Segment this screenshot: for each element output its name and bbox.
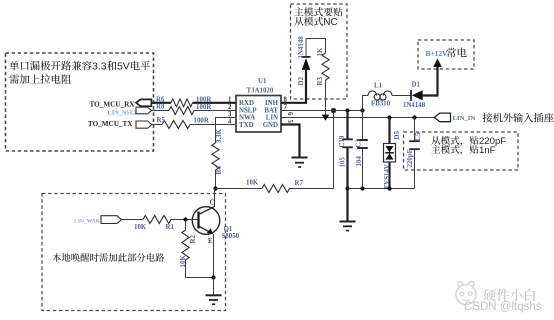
wire D2 top to R3 top <box>306 39 326 54</box>
port LIN_IN <box>435 113 476 122</box>
svg-text:R1: R1 <box>166 224 175 231</box>
wire R1 to base <box>171 219 199 221</box>
wire R3 down to LIN <box>325 80 327 118</box>
svg-text:TVS14V: TVS14V <box>384 164 391 189</box>
svg-text:本地唤醒时需加此部分电路: 本地唤醒时需加此部分电路 <box>52 250 165 264</box>
resistor R4 3.3K <box>212 128 223 174</box>
capacitor C3 104 <box>356 111 368 189</box>
svg-text:NWA: NWA <box>239 115 255 122</box>
svg-text:5: 5 <box>286 120 293 124</box>
node rail/D5 <box>387 186 391 190</box>
svg-text:1N4148: 1N4148 <box>403 102 426 109</box>
watermark logo <box>456 281 476 304</box>
power arrow B+12V <box>433 58 442 67</box>
svg-text:R5: R5 <box>157 117 166 124</box>
resistor R3 1K <box>317 47 329 85</box>
svg-text:R6: R6 <box>156 97 165 104</box>
svg-text:2: 2 <box>228 104 232 111</box>
node L1/C3/BAT <box>360 108 364 112</box>
svg-text:U1: U1 <box>258 78 267 85</box>
wire NSLP <box>152 110 169 112</box>
resistor R2 10K <box>180 220 197 278</box>
node C5/LIN <box>412 115 416 119</box>
capacitor C19 105 <box>339 111 353 189</box>
ground (IC) <box>292 158 308 168</box>
ground (emitter) <box>206 278 222 305</box>
node D5/LIN <box>387 115 391 119</box>
node base junction <box>183 217 187 221</box>
svg-text:7: 7 <box>284 104 288 111</box>
node rail/C3 <box>360 186 364 190</box>
svg-text:6: 6 <box>286 112 293 116</box>
svg-text:E: E <box>208 238 213 245</box>
svg-text:1N4148: 1N4148 <box>298 36 305 59</box>
svg-text:CSDN @ltqshs: CSDN @ltqshs <box>464 301 542 313</box>
svg-text:接机外输入插座: 接机外输入插座 <box>483 110 554 125</box>
svg-text:10K: 10K <box>246 179 259 186</box>
svg-text:LIN_IN: LIN_IN <box>453 115 476 122</box>
svg-text:10K: 10K <box>134 224 147 231</box>
svg-text:R2: R2 <box>190 235 197 244</box>
wire R4 to node <box>215 170 217 189</box>
wire D1 to B+12V arrow <box>423 67 438 96</box>
watermark text <box>464 285 542 313</box>
svg-text:100R: 100R <box>194 117 210 124</box>
node rail/C19/gnd <box>345 186 349 190</box>
pin numbers U1 <box>228 97 293 126</box>
note box: local wake-up circuit (bottom-left) <box>42 194 226 311</box>
wire emitter down <box>213 234 215 278</box>
wire INH thick to D2 <box>281 70 306 103</box>
port TO_MCU_RX <box>90 99 152 108</box>
wire pin3 NWAKE down <box>216 118 237 144</box>
svg-text:TJA1020: TJA1020 <box>247 88 274 95</box>
svg-text:L1: L1 <box>374 83 383 90</box>
svg-text:TO_MCU_RX: TO_MCU_RX <box>90 100 136 108</box>
svg-text:LIN_WAKE: LIN_WAKE <box>74 218 104 224</box>
wire TX <box>152 124 162 126</box>
resistor R8 100R <box>156 104 212 115</box>
svg-text:D2: D2 <box>298 77 305 86</box>
diode D2 1N4148 <box>298 36 311 86</box>
wire R2 bottom to emitter <box>186 277 214 279</box>
svg-text:D1: D1 <box>412 81 421 88</box>
node BAT/R7 junction <box>331 108 336 113</box>
svg-text:3.3K: 3.3K <box>216 128 223 143</box>
svg-text:104: 104 <box>356 156 363 167</box>
svg-text:B+12V: B+12V <box>426 49 449 58</box>
svg-text:INH: INH <box>265 100 279 107</box>
resistor R5 100R <box>157 117 210 128</box>
svg-text:R7: R7 <box>295 180 304 187</box>
note box: master mode fit / slave NC <box>291 4 348 99</box>
svg-text:LIN_NSLP: LIN_NSLP <box>108 110 139 117</box>
note box: pull-up requirement (top-left) <box>6 53 154 151</box>
diode D1 1N4148 <box>403 81 426 109</box>
node C19/BAT <box>345 108 349 112</box>
wire R7 up to BAT line <box>290 111 334 189</box>
wire collector up <box>214 189 216 208</box>
IC U1 TJA1020 <box>236 78 281 132</box>
wire RX to pin1 <box>193 102 237 104</box>
port LIN_WAKE <box>74 216 122 225</box>
svg-text:1K: 1K <box>317 47 324 56</box>
svg-text:D5: D5 <box>394 131 401 140</box>
node R3/LIN junction <box>322 115 330 121</box>
wire LIN_WAKE to R1 <box>122 219 144 221</box>
svg-text:10K: 10K <box>180 255 187 268</box>
wire node to R7 <box>216 188 263 190</box>
svg-text:220pF: 220pF <box>407 149 414 167</box>
svg-text:100R: 100R <box>196 104 212 111</box>
node collector junction <box>213 186 217 190</box>
resistor R6 100R <box>156 96 212 106</box>
svg-text:C5: C5 <box>415 132 422 141</box>
node emitter junction <box>211 275 215 279</box>
svg-text:需加上拉电阻: 需加上拉电阻 <box>9 71 72 86</box>
svg-text:GND: GND <box>263 122 278 129</box>
svg-text:NSLP: NSLP <box>239 107 257 114</box>
svg-text:R8: R8 <box>156 104 165 111</box>
svg-text:从模式NC: 从模式NC <box>294 14 338 28</box>
svg-text:常电: 常电 <box>446 46 467 61</box>
svg-text:105: 105 <box>340 157 347 168</box>
svg-text:主模式，贴1nF: 主模式，贴1nF <box>431 142 496 156</box>
svg-text:R4: R4 <box>216 166 223 175</box>
TVS diode D5 <box>384 118 402 190</box>
svg-text:BAT: BAT <box>264 107 278 114</box>
inductor L1 FB310 <box>363 83 411 111</box>
svg-text:TXD: TXD <box>239 122 254 129</box>
port TO_MCU_TX <box>88 120 152 128</box>
svg-text:TO_MCU_TX: TO_MCU_TX <box>88 120 133 128</box>
wire GND pin5 <box>281 125 300 158</box>
note box: B+12V supply <box>418 40 474 69</box>
svg-text:LIN: LIN <box>266 115 278 122</box>
port NSLP tag <box>136 107 152 114</box>
resistor R1 10K <box>134 216 174 232</box>
svg-text:R3: R3 <box>317 77 324 86</box>
wire LIN line pin6 to LIN_IN <box>281 117 435 119</box>
wire RX thick <box>151 102 171 104</box>
svg-text:C3: C3 <box>356 139 363 148</box>
resistor R7 10K <box>246 179 303 192</box>
svg-text:C19: C19 <box>339 135 346 147</box>
ground (rail) <box>340 189 356 231</box>
wire NSLP to pin2 <box>194 110 236 112</box>
wire BAT line pin7 <box>281 110 363 112</box>
svg-text:S8050: S8050 <box>222 233 240 240</box>
wire ground rail <box>348 188 415 190</box>
svg-text:FB310: FB310 <box>371 101 391 108</box>
wire TX to pin4 <box>190 124 236 126</box>
note box: slave 220pF / master 1nF <box>404 132 519 170</box>
svg-text:C: C <box>210 200 215 207</box>
svg-text:RXD: RXD <box>239 100 254 107</box>
capacitor C5 220pF <box>407 118 422 189</box>
transistor Q1 S8050 <box>192 200 239 246</box>
